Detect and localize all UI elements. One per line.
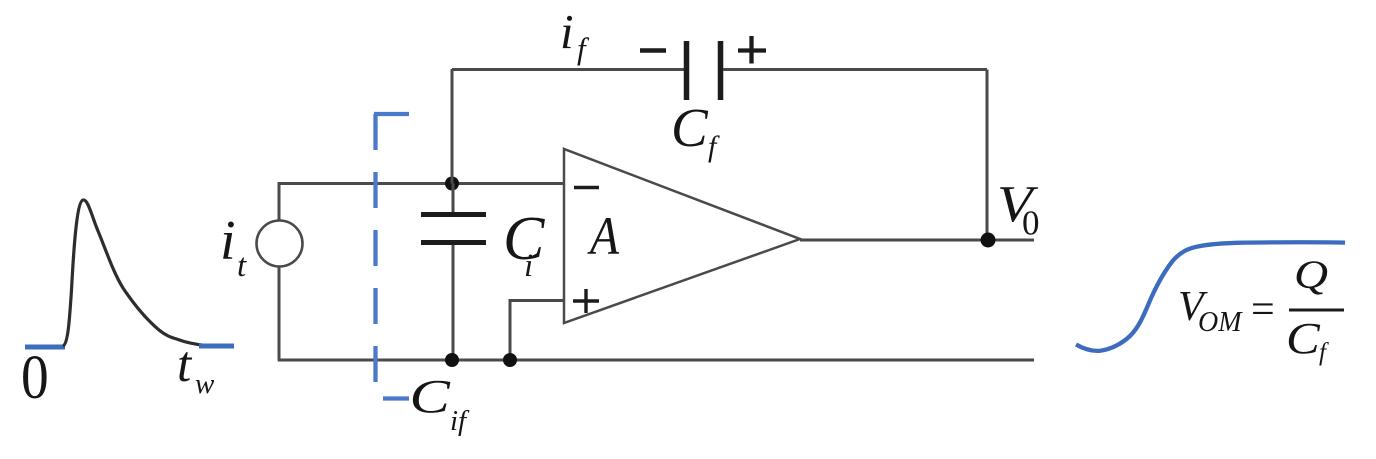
capacitor C_f left plate — [684, 41, 690, 100]
op-amp minus input marking — [574, 186, 599, 189]
wire: bottom ground rail — [278, 359, 1034, 362]
svg-text:f: f — [577, 31, 590, 66]
C_f plus polarity mark — [738, 36, 766, 64]
wire: feedback top right segment — [723, 68, 987, 71]
wire: feedback left vertical — [451, 69, 454, 184]
input pulse baseline left (blue) — [25, 345, 65, 350]
svg-text:C: C — [1286, 315, 1321, 363]
svg-text:f: f — [1319, 339, 1329, 366]
capacitor C_i bottom plate — [421, 240, 486, 245]
svg-text:w: w — [195, 368, 215, 400]
wire: current source bottom to ground rail — [278, 266, 281, 360]
capacitor C_f right plate — [718, 41, 724, 100]
C_f minus polarity mark — [640, 48, 666, 53]
node: non-inverting ground junction dot — [503, 353, 517, 367]
svg-text:0: 0 — [21, 342, 49, 412]
wire: current source top to inverting input — [279, 184, 564, 222]
svg-text:if: if — [450, 405, 470, 437]
output step waveform (blue curve) — [1076, 242, 1345, 351]
op-amp plus input marking — [573, 289, 599, 313]
svg-text:C: C — [671, 97, 709, 158]
wire: C_i top stub — [452, 184, 455, 213]
wire: C_i bottom stub — [452, 245, 455, 360]
svg-text:A: A — [587, 207, 620, 266]
current source i_t (circle symbol) — [257, 221, 303, 267]
svg-text:t: t — [177, 337, 193, 393]
dashed blue boundary C_if — [374, 114, 409, 399]
capacitor C_i top plate — [421, 212, 486, 217]
svg-text:C: C — [410, 369, 451, 423]
wire: feedback right vertical — [986, 70, 989, 241]
node A: junction dot at inverting input — [445, 177, 459, 191]
input pulse waveform (black curve) — [63, 200, 206, 346]
wire: op-amp output to V_0 — [800, 239, 1034, 242]
input pulse baseline right (blue) — [199, 344, 234, 349]
op-amp U1 (triangle) — [564, 149, 800, 323]
svg-text:OM: OM — [1198, 307, 1243, 338]
svg-text:i: i — [560, 4, 574, 59]
node V_0: output junction dot — [981, 233, 996, 248]
svg-text:f: f — [708, 130, 720, 163]
fraction bar — [1289, 309, 1344, 312]
svg-text:0: 0 — [1022, 204, 1040, 243]
svg-text:i: i — [524, 248, 533, 284]
wire: non-inverting input to ground rail — [510, 301, 564, 361]
node: C_i to ground junction dot — [445, 353, 459, 367]
svg-text:t: t — [237, 248, 247, 284]
svg-text:Q: Q — [1294, 253, 1328, 297]
svg-text:=: = — [1251, 287, 1275, 333]
wire: feedback top left segment — [452, 68, 685, 71]
svg-text:i: i — [220, 210, 236, 272]
